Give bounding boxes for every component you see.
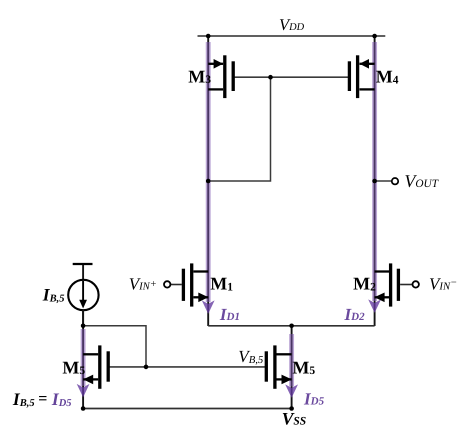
output terminal circle VOUT bbox=[392, 178, 398, 184]
wire VDD rail bbox=[198, 35, 386, 37]
wire M5L-M5R gate bus bbox=[108, 366, 266, 368]
transistor M1 (NMOS diff pair left) bbox=[170, 263, 208, 306]
wire M5L branch vertical (current source through M5L to VSS) bbox=[82, 264, 84, 409]
input terminal circle VIN- bbox=[413, 281, 419, 287]
node bias junction below current source bbox=[81, 324, 86, 329]
transistor M4 (PMOS mirror output) bbox=[349, 55, 374, 98]
node VSS left junction bbox=[81, 406, 86, 411]
transistor M5 left (mirror reference, diode-connected) bbox=[83, 345, 108, 388]
wire tail node (M1/M2 sources to M5R drain) bbox=[208, 325, 374, 327]
node VSS right junction bbox=[289, 406, 294, 411]
current ID2 purple trace over right branch bbox=[368, 42, 381, 313]
input terminal circle VIN+ bbox=[164, 281, 170, 287]
wire M3-M4 gate bus bbox=[233, 76, 349, 78]
transistor M2 (NMOS diff pair right) bbox=[374, 263, 412, 306]
node tail junction bbox=[289, 324, 294, 329]
wire left branch vertical (VDD through M3, M1 to tail) bbox=[207, 36, 209, 326]
wire bias from current source down and over to M5 gate bus bbox=[83, 326, 146, 367]
wire right branch vertical (VDD through M4, M2 to tail) bbox=[374, 36, 376, 326]
wire VOUT stub bbox=[375, 180, 392, 182]
node VDD right junction bbox=[372, 34, 377, 39]
current ID5 purple trace over M5L branch bbox=[77, 329, 90, 397]
wire VSS rail bbox=[82, 408, 293, 410]
node VDD left junction bbox=[206, 34, 211, 39]
wire M3 diode feedback (gate to drain) bbox=[208, 77, 270, 181]
node feedback junction on left branch bbox=[206, 179, 211, 184]
node M3/M4 gate bus junction bbox=[268, 75, 273, 80]
wire M5R branch vertical (tail through M5R to VSS) bbox=[291, 326, 293, 409]
svg-text:=: = bbox=[38, 391, 47, 408]
transistor M5 right (tail current source) bbox=[266, 345, 292, 388]
current source IB,5 bbox=[68, 264, 98, 326]
current ID5 purple trace over M5R branch bbox=[285, 334, 298, 398]
current ID1 purple trace over left branch bbox=[202, 42, 215, 314]
node M5 gate bus junction bbox=[144, 365, 149, 370]
transistor M3 (PMOS, diode-connected mirror input) bbox=[208, 55, 233, 98]
node VOUT tap junction bbox=[372, 179, 377, 184]
